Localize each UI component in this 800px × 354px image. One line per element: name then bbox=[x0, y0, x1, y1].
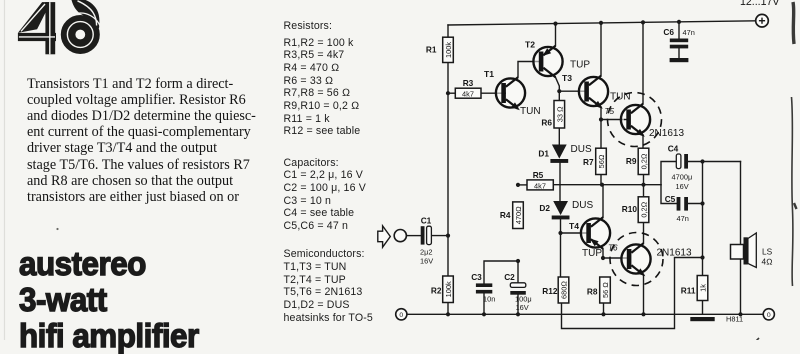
svg-text:R3: R3 bbox=[463, 78, 474, 88]
wire R6 to D1 bbox=[558, 128, 560, 145]
capacitor C2 bbox=[504, 272, 531, 312]
wire T6 base bbox=[603, 257, 627, 259]
wire C1 to node bbox=[431, 235, 448, 237]
svg-text:100k: 100k bbox=[444, 42, 453, 58]
wire top supply rail bbox=[448, 21, 756, 25]
svg-text:12...17V: 12...17V bbox=[740, 0, 780, 8]
wire R12 return loop to output network bbox=[562, 258, 703, 329]
transistor T1 bbox=[484, 69, 541, 117]
svg-text:2N1613: 2N1613 bbox=[657, 248, 692, 259]
resistor R11 bbox=[681, 276, 708, 301]
junction node R1/R3 bbox=[446, 91, 450, 95]
terminal 0 left bbox=[396, 309, 407, 320]
svg-text:T3: T3 bbox=[562, 73, 572, 83]
svg-text:R6: R6 bbox=[541, 118, 552, 128]
svg-text:H811: H811 bbox=[726, 315, 743, 324]
digit 4 crossbar bbox=[18, 33, 56, 41]
svg-text:T5: T5 bbox=[605, 107, 615, 116]
wire feedback rail R5 to C4/C5 tee bbox=[553, 184, 661, 186]
wire C3 bottom to 0V rail bbox=[483, 294, 485, 315]
wire T6 emitter to 0V rail bbox=[643, 275, 645, 315]
svg-text:47n: 47n bbox=[683, 28, 695, 37]
junction T2 emitter on rail bbox=[553, 22, 557, 26]
diode D2 bbox=[539, 200, 593, 219]
wire R3 to T1 base bbox=[481, 92, 503, 94]
wire T2 emitter to rail bbox=[555, 24, 557, 46]
scan gutter artifacts right edge bbox=[756, 2, 797, 341]
wire R11 bottom to 0V rail bbox=[702, 301, 704, 315]
transistor T4 bbox=[569, 217, 610, 259]
wire R8 bottom to 0V rail bbox=[603, 303, 605, 314]
capacitor C4 bbox=[668, 144, 693, 192]
wire tee down to C5 branch bbox=[661, 185, 677, 204]
wire R1 column top bbox=[447, 25, 449, 37]
svg-text:C2: C2 bbox=[504, 272, 515, 282]
wire T2 collector down to R6 bbox=[556, 77, 560, 100]
wire speaker bottom to 0V rail bbox=[740, 259, 742, 314]
scan page edge left bbox=[4, 0, 6, 340]
wire C4/C5/R11 node column bbox=[702, 162, 704, 276]
wire R1 bottom to C1 node to R2 top bbox=[447, 63, 449, 277]
svg-text:T1: T1 bbox=[484, 69, 494, 79]
capacitor C3 bbox=[471, 272, 495, 304]
wire T1 collector to T2 base bbox=[518, 62, 539, 78]
junction C2 on 0V rail bbox=[516, 312, 520, 316]
svg-text:10n: 10n bbox=[483, 295, 495, 304]
capacitor C5 bbox=[665, 194, 689, 223]
loudspeaker LS bbox=[731, 233, 774, 268]
junction R2 on 0V rail bbox=[446, 312, 450, 316]
wire speaker column down bbox=[740, 162, 742, 245]
junction node R4/C2/C3 bbox=[516, 259, 520, 263]
resistor R7 bbox=[583, 148, 606, 174]
junction node T4 base/R12 bbox=[558, 231, 562, 235]
ground on 0V rail below R11 bbox=[690, 317, 714, 321]
digit 4 diagonal stroke bbox=[18, 2, 51, 33]
junction T3 collector on rail bbox=[599, 21, 603, 25]
digit 4 inline stripes bbox=[49, 2, 51, 54]
svg-text:16V: 16V bbox=[676, 182, 689, 191]
svg-text:DUS: DUS bbox=[571, 144, 592, 155]
junction node R7/T4 collector bbox=[600, 183, 604, 187]
wire R7 bottom to feedback rail bbox=[600, 175, 602, 185]
svg-text:T4: T4 bbox=[569, 221, 579, 231]
svg-text:D1: D1 bbox=[538, 149, 549, 159]
capacitor C1 bbox=[420, 216, 433, 266]
svg-text:R11: R11 bbox=[681, 286, 696, 296]
svg-text:0,2Ω: 0,2Ω bbox=[640, 153, 649, 169]
wire node to C2 bbox=[517, 261, 519, 283]
digit 4 stem bbox=[45, 2, 55, 54]
svg-text:R9: R9 bbox=[626, 156, 637, 166]
svg-text:56Ω: 56Ω bbox=[597, 154, 606, 168]
wire C6 top lead bbox=[678, 22, 680, 39]
resistor R3 bbox=[455, 78, 481, 99]
svg-text:R7: R7 bbox=[583, 157, 594, 167]
svg-text:T6: T6 bbox=[608, 244, 618, 253]
svg-text:1k: 1k bbox=[699, 284, 708, 292]
input terminal bbox=[394, 230, 406, 242]
svg-text:LS: LS bbox=[762, 247, 773, 257]
wire C4 right to speaker column bbox=[688, 161, 741, 163]
junction C3 on 0V rail bbox=[482, 312, 486, 316]
wire bottom 0V rail bbox=[407, 313, 763, 315]
svg-text:0: 0 bbox=[767, 312, 771, 319]
svg-text:C5: C5 bbox=[665, 194, 676, 204]
svg-text:47n: 47n bbox=[677, 214, 689, 223]
junction node T3 base bbox=[557, 89, 561, 93]
wire R2 bottom to 0V rail bbox=[447, 303, 449, 315]
resistor R8 bbox=[587, 277, 610, 303]
junction output node R9/R10 bbox=[641, 183, 645, 187]
svg-text:TUN: TUN bbox=[520, 106, 541, 117]
svg-text:R1: R1 bbox=[426, 45, 437, 55]
wire node to R3 bbox=[448, 92, 455, 94]
diode D1 bbox=[538, 144, 592, 163]
wire T3 emitter to T5 base node to R7 bbox=[600, 107, 602, 148]
svg-text:R4: R4 bbox=[500, 210, 511, 220]
resistor R12 bbox=[542, 277, 569, 303]
junction C5 right node bbox=[700, 201, 704, 205]
svg-text:T2: T2 bbox=[525, 40, 535, 50]
digit 6 inline stripes bbox=[67, 22, 93, 48]
capacitor C6 bbox=[663, 27, 694, 48]
article title bbox=[19, 246, 199, 354]
wire R10 to T6 collector bbox=[643, 223, 645, 244]
wire T3 collector to rail bbox=[600, 23, 602, 76]
svg-text:4k7: 4k7 bbox=[462, 90, 474, 99]
junction T5 collector on rail bbox=[641, 20, 645, 24]
svg-text:TUP: TUP bbox=[570, 60, 590, 71]
junction node C1/R1/R2 bbox=[446, 234, 450, 238]
svg-text:C1: C1 bbox=[421, 216, 432, 226]
transistor T2 bbox=[525, 40, 590, 78]
parts list bbox=[284, 20, 373, 324]
svg-text:R12: R12 bbox=[542, 286, 558, 296]
wire tee up to C4 branch bbox=[661, 162, 676, 185]
junction R12 return node bbox=[700, 255, 704, 259]
junction node R5/T1 emitter bbox=[516, 183, 520, 187]
svg-text:C6: C6 bbox=[663, 27, 674, 37]
wire T5 collector to rail bbox=[642, 22, 644, 103]
svg-text:R8: R8 bbox=[587, 287, 598, 297]
wire T4 emitter down to T6 base node bbox=[602, 249, 604, 258]
wire R9 to output node to R10 bbox=[643, 175, 645, 197]
wire D2 to T4 base node to R12 bbox=[560, 218, 562, 277]
svg-text:TUP: TUP bbox=[582, 248, 602, 259]
junction T6 emitter on 0V rail bbox=[641, 312, 645, 316]
ground under C6 bbox=[670, 58, 689, 62]
svg-text:56 Ω: 56 Ω bbox=[601, 282, 610, 298]
svg-text:C3: C3 bbox=[471, 272, 482, 282]
svg-text:4700μ: 4700μ bbox=[672, 173, 693, 182]
transistor T6 bbox=[608, 233, 692, 286]
resistor R1 bbox=[426, 37, 453, 62]
junction speaker on 0V rail bbox=[738, 312, 742, 316]
junction C4 right node bbox=[700, 159, 704, 163]
digit 6 loop bbox=[68, 22, 92, 46]
resistor R4 bbox=[500, 202, 523, 229]
wire C6 bottom lead to ground bbox=[678, 48, 680, 58]
resistor R2 bbox=[431, 276, 453, 303]
paper speck bbox=[56, 228, 58, 230]
svg-text:4Ω: 4Ω bbox=[762, 257, 774, 267]
svg-text:R2: R2 bbox=[431, 286, 442, 296]
wire C5 right to node column bbox=[688, 203, 703, 205]
resistor R6 bbox=[541, 101, 564, 129]
svg-text:16V: 16V bbox=[516, 303, 529, 312]
svg-text:R10: R10 bbox=[622, 204, 638, 214]
svg-text:16V: 16V bbox=[420, 257, 433, 266]
transistor T5 bbox=[605, 93, 685, 147]
svg-text:100k: 100k bbox=[444, 281, 453, 297]
svg-text:4k7: 4k7 bbox=[534, 181, 546, 190]
wire C2 bottom to 0V rail bbox=[517, 295, 519, 315]
svg-text:C4: C4 bbox=[668, 144, 679, 154]
intro paragraph bbox=[27, 76, 279, 206]
junction C6 on rail bbox=[677, 20, 681, 24]
digit 6 tail stroke bbox=[72, 0, 100, 29]
svg-text:DUS: DUS bbox=[572, 200, 593, 211]
terminal + supply bbox=[756, 14, 769, 27]
transistor T3 bbox=[562, 73, 631, 107]
svg-text:0,2Ω: 0,2Ω bbox=[640, 201, 649, 217]
wire T5 base bbox=[601, 119, 624, 121]
wire R5 feedback line to output node bbox=[518, 184, 527, 186]
resistor R5 bbox=[527, 170, 553, 190]
junction R8 on 0V rail bbox=[601, 312, 605, 316]
junction node T5 base bbox=[599, 117, 603, 121]
terminal 0 right bbox=[763, 309, 774, 320]
svg-text:D2: D2 bbox=[539, 203, 550, 213]
wire T3 base bbox=[559, 90, 586, 92]
svg-text:680Ω: 680Ω bbox=[560, 281, 569, 299]
svg-text:33 Ω: 33 Ω bbox=[555, 106, 564, 122]
junction node T6 base/R8 bbox=[601, 256, 605, 260]
svg-text:0: 0 bbox=[399, 312, 403, 319]
input arrow bbox=[378, 226, 391, 247]
wire T4 base bbox=[561, 232, 589, 234]
wire C2/C3 tee left bbox=[484, 261, 518, 283]
wire T5 emitter to R9 bbox=[642, 135, 644, 148]
page number logo 46 bbox=[0, 0, 120, 70]
svg-text:470Ω: 470Ω bbox=[514, 206, 523, 224]
wire T4 collector up to feedback rail bbox=[602, 185, 604, 218]
resistor R9 bbox=[626, 148, 649, 174]
svg-text:2μ2: 2μ2 bbox=[420, 248, 432, 257]
svg-text:R5: R5 bbox=[533, 170, 544, 180]
resistor R10 bbox=[622, 197, 649, 223]
wire D1 to D2 bbox=[559, 163, 561, 201]
svg-text:2N1613: 2N1613 bbox=[649, 128, 684, 139]
wire input terminal to C1 bbox=[406, 235, 420, 237]
